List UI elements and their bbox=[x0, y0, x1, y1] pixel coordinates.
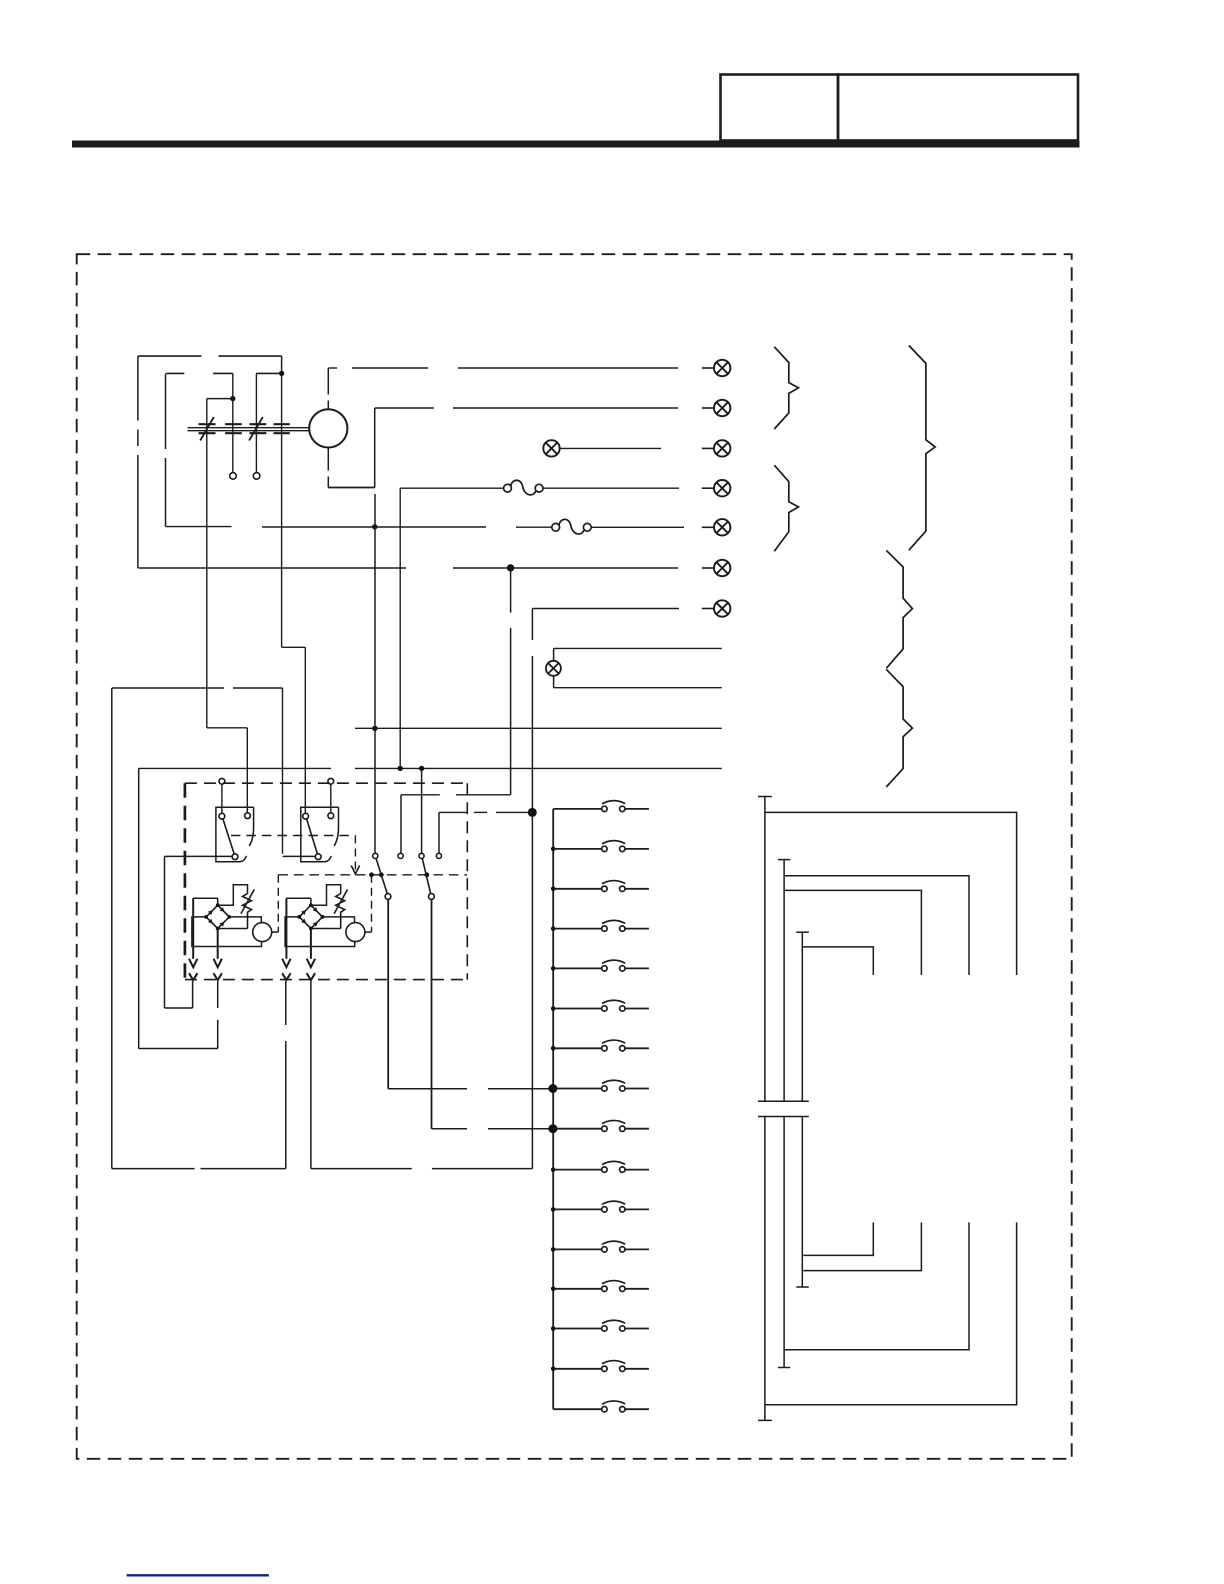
wire relay K2 blade riser bbox=[282, 688, 284, 854]
resistor (variable) zigzag bbox=[334, 889, 347, 928]
fuse F2 bbox=[552, 519, 591, 534]
chevron U2 left bbox=[282, 973, 290, 980]
wire motor bottom stub bbox=[327, 448, 329, 471]
wire hook U1-bottom to row 11 bbox=[138, 768, 140, 1048]
fuse F1 bbox=[504, 480, 543, 495]
wire lamp row 5 right bbox=[592, 526, 685, 528]
terminal bar bus C bottom bbox=[796, 1286, 809, 1288]
wire module bottom output bbox=[217, 929, 219, 959]
capacitor C3 trimmer slash bbox=[249, 417, 263, 441]
lamp L8 bbox=[702, 608, 714, 610]
connector break upper bar bbox=[758, 1100, 809, 1102]
terminal bbox=[230, 473, 237, 480]
relay frame right edge and NC throw contact bbox=[249, 807, 253, 846]
wire lamp row 3 bbox=[560, 447, 661, 449]
wire module bottom output bbox=[310, 929, 312, 959]
wire pole feed vertical bbox=[374, 494, 376, 853]
wire rotor shaft tap bbox=[207, 398, 233, 400]
wire row 11 left bbox=[139, 767, 331, 769]
capacitor C2 plates bbox=[225, 423, 242, 425]
wire drop to switch S2 right contact bbox=[438, 812, 440, 853]
relay contact A bbox=[303, 813, 309, 819]
wire jog capacitor C4 to relay K2 bbox=[282, 646, 306, 648]
node junction bbox=[372, 726, 377, 731]
wire switch feed horizontal bbox=[439, 811, 467, 813]
wire lamp row 7 bbox=[532, 608, 679, 610]
wire relay K2 coil drop bbox=[304, 647, 306, 813]
wire connector bus bbox=[552, 809, 554, 1409]
wire diamond bottom to resistor bottom bbox=[311, 928, 341, 930]
wire rail row 8 bbox=[554, 647, 722, 649]
terminal bar bus A bottom bbox=[758, 1419, 772, 1421]
wire coil right terminal bbox=[365, 931, 372, 933]
wire lamp row 4 bbox=[543, 487, 679, 489]
wire diamond bottom to resistor bottom bbox=[218, 928, 248, 930]
node junction blade 2 bbox=[424, 872, 429, 877]
relay contact B bbox=[245, 813, 251, 819]
lamp L9 with rails bbox=[553, 648, 555, 661]
wire left enclosure vertical bbox=[137, 356, 139, 420]
node junction (bus row 8) bbox=[548, 1084, 557, 1093]
wire relay K1 coil drop bbox=[207, 727, 248, 729]
wire stator lead riser bbox=[281, 356, 283, 373]
wire row 9 left (to relay K2 blade riser) bbox=[112, 687, 224, 689]
ignition module box outline bbox=[192, 917, 262, 947]
capacitor C3 plates bbox=[250, 423, 267, 425]
node junction bbox=[419, 766, 424, 771]
switch SW5 (connector row 5) bbox=[551, 960, 649, 971]
relay frame right edge and NC throw contact bbox=[334, 807, 338, 846]
node junction (main) bbox=[528, 808, 537, 817]
hyperlink underline bbox=[127, 1574, 269, 1576]
switch SW3 (connector row 3) bbox=[551, 881, 649, 892]
chevron U1 bottom bbox=[214, 973, 222, 980]
switch S2b contact bbox=[436, 853, 441, 858]
wire motor-to-fuse segment row 4 bbox=[328, 487, 374, 489]
pulse coil circle bbox=[346, 923, 365, 942]
switch SW12 (connector row 12) bbox=[551, 1241, 649, 1252]
switch S2 blade pivot bbox=[429, 894, 435, 900]
wire motor top stub bbox=[327, 368, 329, 395]
terminal bar bus B bottom bbox=[778, 1367, 790, 1369]
header box small bbox=[721, 75, 839, 141]
switch S1b contact bbox=[419, 853, 424, 858]
switch SW15 (connector row 15) bbox=[551, 1361, 649, 1372]
terminal bbox=[253, 473, 260, 480]
wire terminal to contact K2 bbox=[330, 784, 332, 813]
wire bus B lower bbox=[783, 1117, 785, 1368]
capacitor C4 plates bbox=[274, 423, 290, 425]
switch SW6 (connector row 6) bbox=[551, 1000, 649, 1011]
switch SW9 (connector row 9) bbox=[553, 1120, 649, 1131]
wire row 11 right bbox=[355, 767, 722, 769]
switch S1 blade bbox=[376, 859, 387, 894]
node junction bbox=[230, 396, 235, 401]
capacitor C2 lead bbox=[232, 373, 234, 472]
wire diamond right to pulse coil bbox=[229, 917, 261, 923]
pulse coil circle bbox=[253, 923, 272, 942]
wire lamp row 2 bbox=[375, 407, 434, 409]
relay frame bbox=[301, 807, 339, 862]
lamp L1 bbox=[702, 367, 714, 369]
node junction trigger bbox=[369, 872, 374, 877]
wire branch C2 bottom bbox=[803, 1222, 921, 1270]
terminal bar bus A top bbox=[758, 796, 772, 798]
switch SW7 (connector row 7) bbox=[551, 1040, 649, 1051]
switch SW16 (connector row 16) bbox=[553, 1401, 649, 1412]
capacitor C1 trimmer slash bbox=[200, 417, 214, 441]
switch SW4 (connector row 4) bbox=[551, 920, 649, 931]
lamp L5 bbox=[702, 487, 714, 489]
switch S1 left contact bbox=[373, 853, 378, 858]
wire jog to switch S2 contact bbox=[401, 794, 440, 796]
node junction bbox=[372, 524, 377, 529]
capacitor C1 lead bbox=[206, 399, 208, 728]
dashed link drop with arrow bbox=[354, 836, 356, 870]
wire hook U2-left to row 9 bbox=[111, 688, 113, 1169]
wire riser to switch contact bbox=[421, 768, 423, 853]
wire main riser row7-to-bottom bbox=[531, 609, 533, 641]
terminal relay K1 bbox=[219, 778, 225, 784]
relay contact B bbox=[328, 813, 334, 819]
header title rule (thick bar) bbox=[72, 141, 1080, 148]
wire hook U1-left to relay K1 blade bbox=[164, 856, 166, 1008]
wire rail row 9 bbox=[554, 687, 722, 689]
node: source unit outer dashed top edge bbox=[138, 355, 202, 357]
wire drop to switch S2 left contact bbox=[400, 795, 402, 854]
wire lamp row 5 left bbox=[166, 526, 232, 528]
ignition module box outline bbox=[285, 917, 355, 947]
relay armature blade bbox=[307, 819, 318, 854]
wire S2 output to ladder row 9 bbox=[432, 1128, 468, 1130]
harness bracket 3 (large) bbox=[909, 346, 935, 551]
node junction blade 1 bbox=[379, 872, 384, 877]
wire module left input bbox=[285, 898, 287, 959]
wire fuse F1 feed bbox=[400, 487, 503, 489]
CDI unit dashed box right edge bbox=[466, 783, 468, 979]
switch SW14 (connector row 14) bbox=[551, 1320, 649, 1331]
wire relay K2 blade lead bbox=[283, 855, 316, 857]
wire branch A bottom bbox=[765, 1222, 1017, 1404]
relay armature blade bbox=[223, 819, 234, 854]
diode bridge rectifier diamond bbox=[204, 903, 231, 930]
wire S1 pivot drop bbox=[387, 899, 389, 1088]
wire motor bottom jog bbox=[328, 487, 374, 489]
harness bracket 2 bbox=[774, 465, 798, 551]
switch SW13 (connector row 13) bbox=[551, 1281, 649, 1292]
switch SW2 (connector row 2) bbox=[551, 841, 649, 852]
relay contact A bbox=[219, 813, 225, 819]
node junction bbox=[398, 766, 403, 771]
wire bus A lower bbox=[764, 1117, 766, 1421]
wiring-diagram dashed border bbox=[77, 254, 1072, 1459]
resistor (variable) zigzag bbox=[241, 889, 254, 928]
switch S1 blade pivot bbox=[385, 894, 391, 900]
harness bracket 5 bbox=[886, 669, 912, 787]
arrow module left lead bbox=[189, 959, 197, 968]
wire branch B bottom bbox=[784, 1222, 969, 1349]
lamp L7 bbox=[702, 567, 714, 569]
lamp L4 bbox=[702, 447, 714, 449]
node junction bbox=[279, 371, 284, 376]
wire fuse F1 drop bbox=[399, 488, 401, 768]
wire branch C top bbox=[802, 947, 873, 975]
switch SW8 (connector row 8) bbox=[553, 1080, 649, 1091]
lamp L3 inline bbox=[543, 440, 559, 456]
harness bracket 4 bbox=[886, 550, 912, 668]
relay frame bbox=[216, 807, 254, 862]
wire bus B vertical bbox=[783, 860, 785, 1102]
wire lamp row 6 bbox=[139, 567, 406, 569]
rotor shaft double line bbox=[188, 427, 310, 429]
chevron U2 bottom bbox=[307, 973, 315, 980]
harness bracket 1 bbox=[774, 347, 798, 429]
header box large bbox=[838, 75, 1078, 141]
relay armature pivot circle bbox=[315, 854, 321, 860]
wire module left input bbox=[192, 898, 194, 959]
wire bus A vertical bbox=[764, 797, 766, 1102]
node junction (bus row 9) bbox=[548, 1124, 557, 1133]
wire dashed trigger riser bbox=[277, 875, 279, 932]
switch SW10 (connector row 10) bbox=[551, 1161, 649, 1172]
wire S1 output to ladder row 8 bbox=[388, 1088, 467, 1090]
terminal bar bus B top bbox=[778, 859, 790, 861]
connector break lower bar bbox=[758, 1116, 809, 1118]
wire terminal to contact K1 bbox=[221, 784, 223, 813]
wire row 10 bbox=[355, 727, 722, 729]
wire branch A top bbox=[765, 812, 1017, 975]
CDI unit dashed box left edge (heavy) bbox=[184, 783, 187, 979]
wire notch from diamond top to resistor top bbox=[311, 885, 341, 906]
arrow module bottom lead bbox=[214, 959, 222, 968]
wire inner enclosure vertical bbox=[165, 373, 167, 449]
wire diamond right to pulse coil bbox=[323, 917, 355, 923]
node: source unit inner dashed top edge bbox=[166, 372, 184, 374]
wire notch from diamond top to resistor top bbox=[218, 885, 248, 906]
wire dashed trigger riser bbox=[371, 875, 373, 932]
capacitor C3 lead bbox=[255, 373, 257, 472]
switch S2 left contact bbox=[398, 853, 403, 858]
wire bus C vertical bbox=[801, 932, 803, 1101]
node junction bbox=[507, 564, 514, 571]
arrow module bottom lead bbox=[307, 959, 315, 968]
wire S2 pivot drop bbox=[431, 899, 433, 1128]
dashed mechanical link relays bbox=[231, 835, 356, 837]
terminal bar bus C top bbox=[796, 931, 809, 933]
lamp L6 bbox=[702, 526, 714, 528]
dashed trigger bus bbox=[278, 874, 467, 876]
wire branch B top bbox=[784, 876, 969, 975]
wire coil right terminal bbox=[272, 931, 279, 933]
lamp L2 bbox=[702, 407, 714, 409]
capacitor C1 plates bbox=[199, 423, 216, 425]
wire branch C bottom bbox=[803, 1222, 873, 1255]
switch S2 blade bbox=[422, 859, 430, 894]
terminal relay K2 bbox=[328, 778, 334, 784]
wire bus C lower bbox=[801, 1117, 803, 1288]
wire relay K1 blade lead bbox=[165, 855, 233, 857]
diode bridge rectifier diamond bbox=[297, 903, 324, 930]
switch SW1 (connector row 1) bbox=[553, 801, 649, 812]
wire diamond top to module drop bbox=[310, 898, 312, 905]
arrow module left lead bbox=[282, 959, 290, 968]
capacitor C4 lead bbox=[281, 373, 283, 647]
generator/motor M1 bbox=[309, 409, 347, 447]
relay armature pivot circle bbox=[232, 854, 238, 860]
wire hook U2-bottom to main riser bbox=[310, 981, 312, 1168]
CDI unit dashed box top edge bbox=[185, 782, 467, 784]
CDI unit dashed box bottom edge bbox=[185, 979, 467, 981]
wire lamp row 1 bbox=[328, 367, 337, 369]
wire diamond top to module drop bbox=[217, 898, 219, 905]
wire branch B2 top bbox=[784, 890, 921, 975]
switch SW11 (connector row 11) bbox=[551, 1201, 649, 1212]
chevron U1 left bbox=[189, 973, 197, 980]
wire dashed drop from row 6 bbox=[510, 568, 512, 613]
